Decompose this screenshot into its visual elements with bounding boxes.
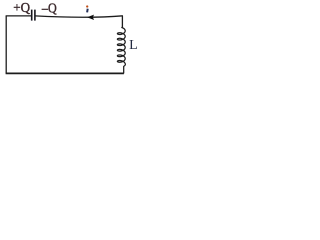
wire: top side, right of capacitor (slight scan sag) [35, 16, 123, 17]
wire: top side, left of capacitor [6, 15, 32, 17]
label i : stem [86, 9, 89, 13]
current arrow head (points left along top wire) [87, 15, 94, 20]
wire: bottom side [6, 72, 124, 74]
label i : dot [86, 5, 88, 7]
svg-text:L: L [129, 38, 138, 53]
wire: left vertical side [5, 16, 7, 74]
capacitor C: left plate [31, 10, 33, 21]
svg-text:–Q: –Q [41, 2, 57, 17]
wire: right vertical, corner to coil [121, 16, 123, 28]
inductor L coil [117, 27, 125, 73]
capacitor C: right plate [34, 10, 36, 21]
svg-text:+Q: +Q [13, 1, 30, 16]
